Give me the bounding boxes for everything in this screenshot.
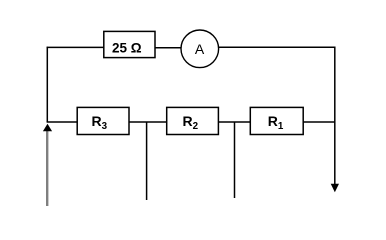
- wire vertical tap between R2 and R1: [234, 122, 236, 198]
- wire middle rail: R3 to R2: [129, 121, 167, 123]
- resistor 25 Ω (box): [104, 31, 155, 57]
- wire middle rail: left node to R3: [47, 121, 78, 123]
- resistor R3 (box): [77, 107, 129, 134]
- wire 25Ω resistor to ammeter: [155, 47, 181, 49]
- resistor R1 (box): [250, 107, 303, 134]
- svg-text:A: A: [195, 41, 205, 57]
- svg-text:25 Ω: 25 Ω: [112, 40, 142, 55]
- wire middle rail: R1 to right vertical: [303, 121, 336, 123]
- current arrow up at left node (gray shaft): [46, 131, 48, 206]
- wire ammeter to right vertical: [219, 46, 336, 48]
- arrowhead current direction up (black head): [43, 124, 52, 131]
- arrowhead current direction down (right branch): [331, 184, 339, 193]
- wire middle rail: R2 to R1: [218, 121, 250, 123]
- wire vertical tap between R3 and R2: [146, 122, 148, 200]
- ammeter A (circle): [181, 30, 219, 68]
- resistor R2 (box): [167, 107, 219, 134]
- wire left vertical (top wire down to middle rail): [46, 47, 48, 122]
- wire right vertical: [334, 47, 336, 185]
- wire top-left horizontal (left node to 25Ω resistor): [47, 46, 105, 48]
